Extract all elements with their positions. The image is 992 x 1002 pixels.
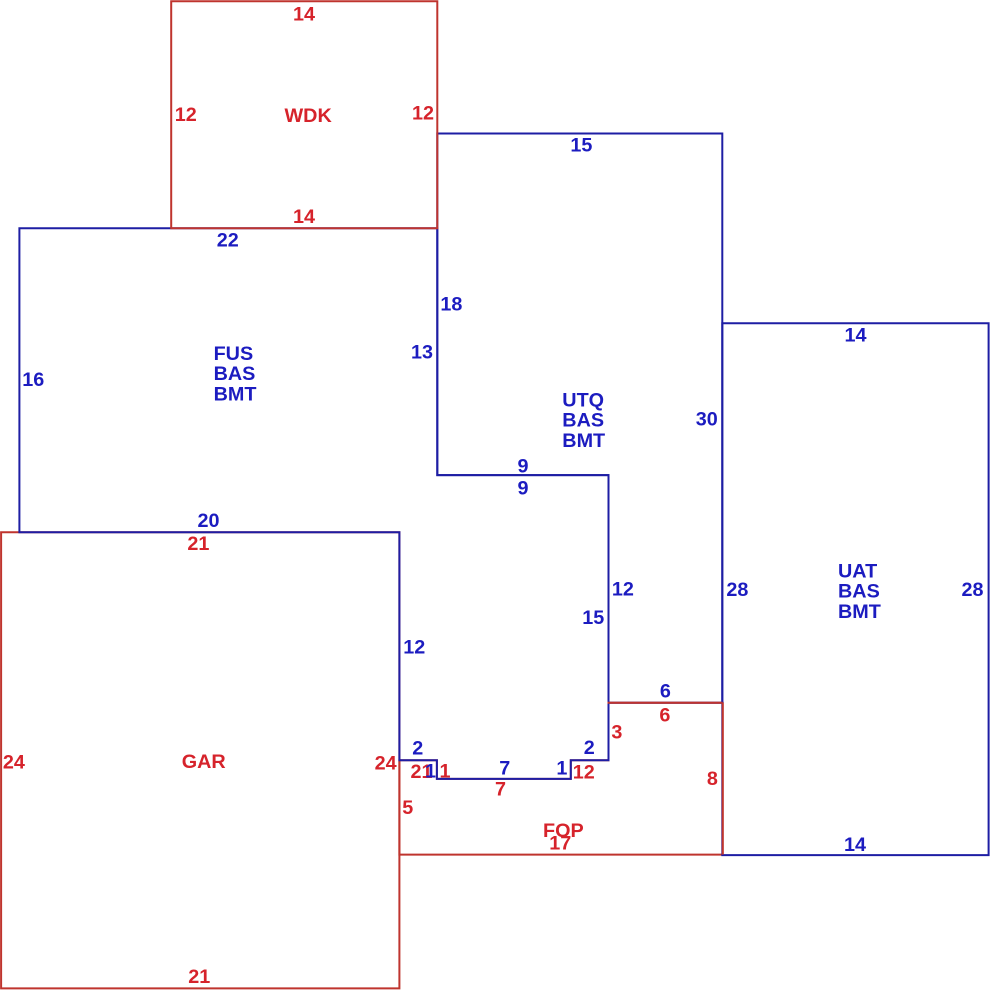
svg-text:BAS: BAS [838,581,880,603]
svg-text:15: 15 [582,607,604,629]
svg-text:12: 12 [175,104,197,126]
svg-text:21: 21 [188,966,210,988]
FOP top edge redrawn red over blue [608,702,723,704]
svg-text:17: 17 [549,833,571,855]
svg-text:30: 30 [696,408,718,430]
room UTQ outline (blue) [437,134,722,703]
svg-text:21: 21 [187,533,209,555]
svg-text:28: 28 [726,579,748,601]
svg-text:UTQ: UTQ [562,389,604,411]
FOP right edge redrawn red over blue [722,703,724,855]
room FUS/BAS/BMT outline (blue) [19,228,608,779]
svg-text:20: 20 [197,510,219,532]
svg-text:2: 2 [412,737,423,759]
room GAR outline (red rectangle, mostly covered on top/right by blue) [1,532,399,988]
svg-text:9: 9 [517,455,528,477]
svg-text:BMT: BMT [562,430,605,452]
svg-text:12: 12 [412,102,434,124]
svg-text:13: 13 [411,341,433,363]
svg-text:14: 14 [844,834,866,856]
svg-text:BMT: BMT [214,383,257,405]
room WDK outline (red rectangle, drawn over blue) [171,1,437,228]
svg-text:14: 14 [844,325,866,347]
svg-text:7: 7 [499,757,510,779]
svg-text:14: 14 [293,206,315,228]
svg-text:5: 5 [402,797,413,819]
svg-text:1: 1 [556,757,567,779]
svg-text:1: 1 [425,760,436,782]
svg-text:28: 28 [961,579,983,601]
room FOP outline (red, notch edges later hidden under blue) [399,703,722,855]
svg-text:16: 16 [22,369,44,391]
svg-text:14: 14 [293,3,315,25]
svg-text:3: 3 [611,722,622,744]
svg-text:12: 12 [403,636,425,658]
svg-text:24: 24 [375,752,397,774]
room UAT outline (blue rectangle) [722,323,988,855]
svg-text:BMT: BMT [838,601,881,623]
svg-text:1: 1 [439,760,450,782]
svg-text:6: 6 [659,704,670,726]
svg-text:8: 8 [707,768,718,790]
svg-text:WDK: WDK [285,105,333,127]
svg-text:18: 18 [440,294,462,316]
svg-text:12: 12 [573,761,595,783]
svg-text:12: 12 [612,579,634,601]
svg-text:GAR: GAR [182,751,226,773]
svg-text:BAS: BAS [562,410,604,432]
svg-text:UAT: UAT [838,560,877,582]
svg-text:15: 15 [570,135,592,157]
svg-text:24: 24 [3,751,25,773]
svg-text:FUS: FUS [214,343,254,365]
svg-text:2: 2 [584,737,595,759]
svg-text:6: 6 [660,680,671,702]
svg-text:7: 7 [495,779,506,801]
svg-text:22: 22 [217,229,239,251]
svg-text:BAS: BAS [214,363,256,385]
svg-text:9: 9 [517,477,528,499]
